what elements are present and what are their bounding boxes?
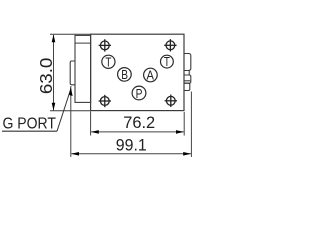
svg-text:76.2: 76.2 (123, 113, 155, 132)
svg-text:99.1: 99.1 (116, 137, 147, 155)
svg-text:T: T (164, 55, 170, 69)
svg-text:P: P (136, 87, 143, 101)
svg-text:A: A (147, 69, 155, 83)
svg-text:63.0: 63.0 (36, 57, 56, 94)
svg-text:G PORT: G PORT (3, 115, 57, 132)
svg-text:T: T (105, 55, 111, 69)
svg-text:B: B (121, 68, 128, 82)
